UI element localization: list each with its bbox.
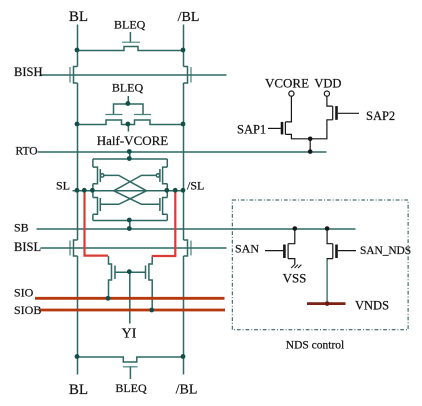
node SAP common (308, 137, 313, 142)
bubble of latch PMOS left gate (101, 174, 104, 177)
node YI gate (127, 269, 132, 274)
wire BL column lower segment (77, 256, 79, 375)
svg-text:/BL: /BL (178, 10, 200, 25)
gate bar of latch PMOS left (99, 169, 101, 182)
wire VCORE lead (285, 96, 291, 122)
wire BL column upper segment (77, 25, 79, 67)
transistor BLEQ top equalizer (channel + wire BL to /BL) (78, 47, 184, 51)
wire cross-couple lower-right gate (114, 191, 160, 205)
wire latch left edge mid (92, 184, 94, 198)
svg-text:BLEQ: BLEQ (112, 81, 144, 95)
node SB at SAN (293, 226, 298, 231)
svg-text:BISH: BISH (14, 65, 42, 79)
wire SAN_NDS drain lead (327, 229, 333, 244)
gate bar of equalizer left transistor (106, 114, 123, 116)
node SIOB tap (149, 308, 154, 313)
transistor latch NMOS right (channel) (163, 198, 168, 215)
wire red SL to IO left (85, 191, 109, 256)
wire YI column (129, 272, 131, 323)
wire SAN_NDS source jog (327, 259, 333, 261)
transistor IO select right (channel) (149, 257, 152, 311)
node /SL at red wire (173, 188, 178, 193)
terminal VDD (324, 91, 329, 96)
box NDS control (dash-dot border) (232, 200, 408, 330)
wire latch top stub (RTO to latch) (129, 152, 131, 159)
node SAP to RTO (308, 149, 313, 154)
wire bottom BLEQ gate stub (129, 367, 131, 379)
svg-text:BL: BL (69, 382, 88, 398)
wire BL column middle segment (77, 83, 79, 240)
node SL at BL (75, 188, 80, 193)
gate bar of SAN (283, 245, 286, 259)
wire latch right edge upper (166, 159, 168, 167)
svg-text:VCORE: VCORE (265, 76, 309, 91)
svg-text:SAP2: SAP2 (366, 109, 395, 123)
gate bar of SAP2 (335, 106, 338, 120)
terminal VCORE (289, 91, 294, 96)
gate bar of top BLEQ transistor (122, 41, 140, 43)
wire SB net (37, 228, 356, 230)
transistor SAP1 channel bar (284, 122, 286, 134)
wire SAN_NDS gate lead (338, 250, 356, 252)
wire red /SL to IO right (152, 191, 176, 257)
node SIO tap (106, 296, 111, 301)
transistor latch PMOS left (channel) (93, 167, 98, 184)
svg-text:BLEQ: BLEQ (114, 18, 146, 32)
wire SAN gate lead (265, 250, 283, 252)
node latch top (127, 156, 132, 161)
transistor BISL left (channel jog on BL column) (74, 240, 78, 256)
gate bar of SAN_NDS (335, 245, 338, 259)
wire BLEQ2 gate tee (114, 104, 144, 114)
junction dots teal (75, 48, 186, 359)
wire SAN_NDS to VNDS (teal) (326, 259, 328, 304)
gate bar of equalizer right transistor (134, 114, 151, 116)
svg-text:/BL: /BL (176, 383, 198, 398)
wire VDD lead (327, 96, 333, 106)
bubble of latch PMOS right gate (156, 174, 159, 177)
wire /BL column middle segment (183, 83, 185, 240)
transistor BLEQ bottom equalizer (channel + wire) (78, 357, 184, 362)
node /BL top BLEQ (181, 48, 186, 53)
node BL top BLEQ (75, 48, 80, 53)
svg-text:Half-VCORE: Half-VCORE (97, 133, 169, 148)
node RTO latch (127, 149, 132, 154)
wire cross-couple lower-left gate (100, 191, 146, 205)
wire RTO net (38, 151, 327, 153)
wire SAP2 gate lead (338, 112, 359, 114)
node SB at SAN_NDS (325, 226, 330, 231)
svg-text:/SL: /SL (187, 179, 204, 193)
node BLEQ2 tee (126, 101, 131, 106)
wire /BL column lower segment (183, 256, 185, 375)
svg-text:SAN_NDS: SAN_NDS (360, 245, 411, 257)
transistors of Half-VCORE equalizer (channel bumps + wire) (78, 120, 184, 125)
wire YI gate tee (115, 271, 146, 273)
svg-text:BLEQ: BLEQ (115, 381, 147, 395)
wire SAN drain lead (288, 229, 295, 244)
wire node /SL (167, 190, 183, 192)
node equalizer center (126, 122, 131, 127)
wire BLEQ2 gate stub (127, 96, 129, 104)
svg-text:RTO: RTO (16, 146, 38, 158)
wire /BL column upper segment (183, 25, 185, 67)
svg-text:SAN: SAN (235, 242, 259, 256)
wire latch mid rail SL to /SL (93, 190, 167, 192)
ground VSS hatches (291, 265, 301, 268)
node VNDS (325, 301, 330, 306)
node SL at latch (90, 188, 95, 193)
wire latch right edge mid (166, 184, 168, 198)
node BL equalizer (75, 122, 80, 127)
transistor latch PMOS right (channel) (163, 167, 168, 184)
node /BL equalizer (181, 122, 186, 127)
svg-text:SIOB: SIOB (14, 303, 41, 317)
transistor IO select left (channel) (109, 256, 112, 299)
wire cross-couple upper-left gate (104, 175, 147, 190)
wire BISH net (41, 74, 227, 76)
gate bar of BISH left (69, 67, 71, 83)
gate bar of BISL right (190, 241, 192, 256)
transistor BISL right (channel jog on /BL column) (184, 240, 188, 256)
transistor BISH right (channel jog on /BL column) (184, 67, 188, 84)
gate bar of latch NMOS left (99, 198, 101, 211)
transistor SAN_NDS channel bar (332, 244, 334, 259)
transistor BISH left (channel jog on BL column) (74, 67, 78, 84)
wire Half-VCORE stub (127, 125, 129, 132)
node latch bottom (127, 218, 132, 223)
supply bar VNDS (307, 302, 346, 305)
transistor SAN channel bar (287, 244, 289, 259)
wire SAP common node to RTO (309, 139, 311, 152)
node SB latch (127, 226, 132, 231)
gate bar of BISL left (69, 241, 71, 256)
wire SIO rail (35, 297, 225, 300)
transistor SAP2 channel bar (332, 106, 334, 120)
gate bar of BISH right (190, 67, 192, 83)
wire latch bottom rail (93, 220, 167, 222)
node /SL at /BL (181, 188, 186, 193)
wire SAP1 gate lead (268, 127, 281, 129)
svg-text:YI: YI (122, 327, 137, 342)
svg-text:VDD: VDD (314, 77, 341, 91)
svg-text:SL: SL (56, 179, 70, 193)
gate bar of IO select left (114, 266, 116, 280)
wire cross-couple upper-right gate (114, 175, 157, 190)
node SL at red wire (82, 188, 87, 193)
wire BLEQ top gate stub (129, 32, 131, 42)
svg-text:SIO: SIO (14, 286, 34, 300)
gate bar of IO select right (145, 266, 147, 280)
svg-text:VSS: VSS (283, 271, 307, 286)
gate bar of bottom BLEQ transistor (123, 366, 138, 368)
svg-text:BISL: BISL (14, 240, 41, 254)
gate bar of SAP1 (281, 122, 284, 134)
svg-text:SB: SB (14, 221, 29, 235)
wire BISL net (41, 247, 227, 249)
node /BL bottom (181, 354, 186, 359)
wire SAP2 source lead (310, 120, 333, 139)
wire latch bottom stub to SB (129, 221, 131, 230)
wire SIOB rail (40, 309, 225, 312)
svg-text:VNDS: VNDS (355, 299, 389, 313)
transistor latch NMOS left (channel) (93, 198, 98, 215)
svg-text:SAP1: SAP1 (237, 123, 266, 137)
svg-text:NDS control: NDS control (286, 340, 344, 352)
wire latch left edge upper (92, 159, 94, 167)
wire latch top rail (93, 158, 167, 160)
wire node SL (73, 190, 93, 192)
gate bar of latch PMOS right (159, 169, 161, 182)
wire SAN source lead to VSS (288, 259, 295, 265)
svg-text:BL: BL (69, 9, 88, 25)
node BL bottom (75, 354, 80, 359)
wire latch left edge lower (92, 214, 94, 220)
gate bar of latch NMOS right (159, 198, 161, 211)
wire latch right edge lower (166, 214, 168, 220)
wire SAP1 source lead (285, 134, 310, 138)
node /SL at latch (164, 188, 169, 193)
